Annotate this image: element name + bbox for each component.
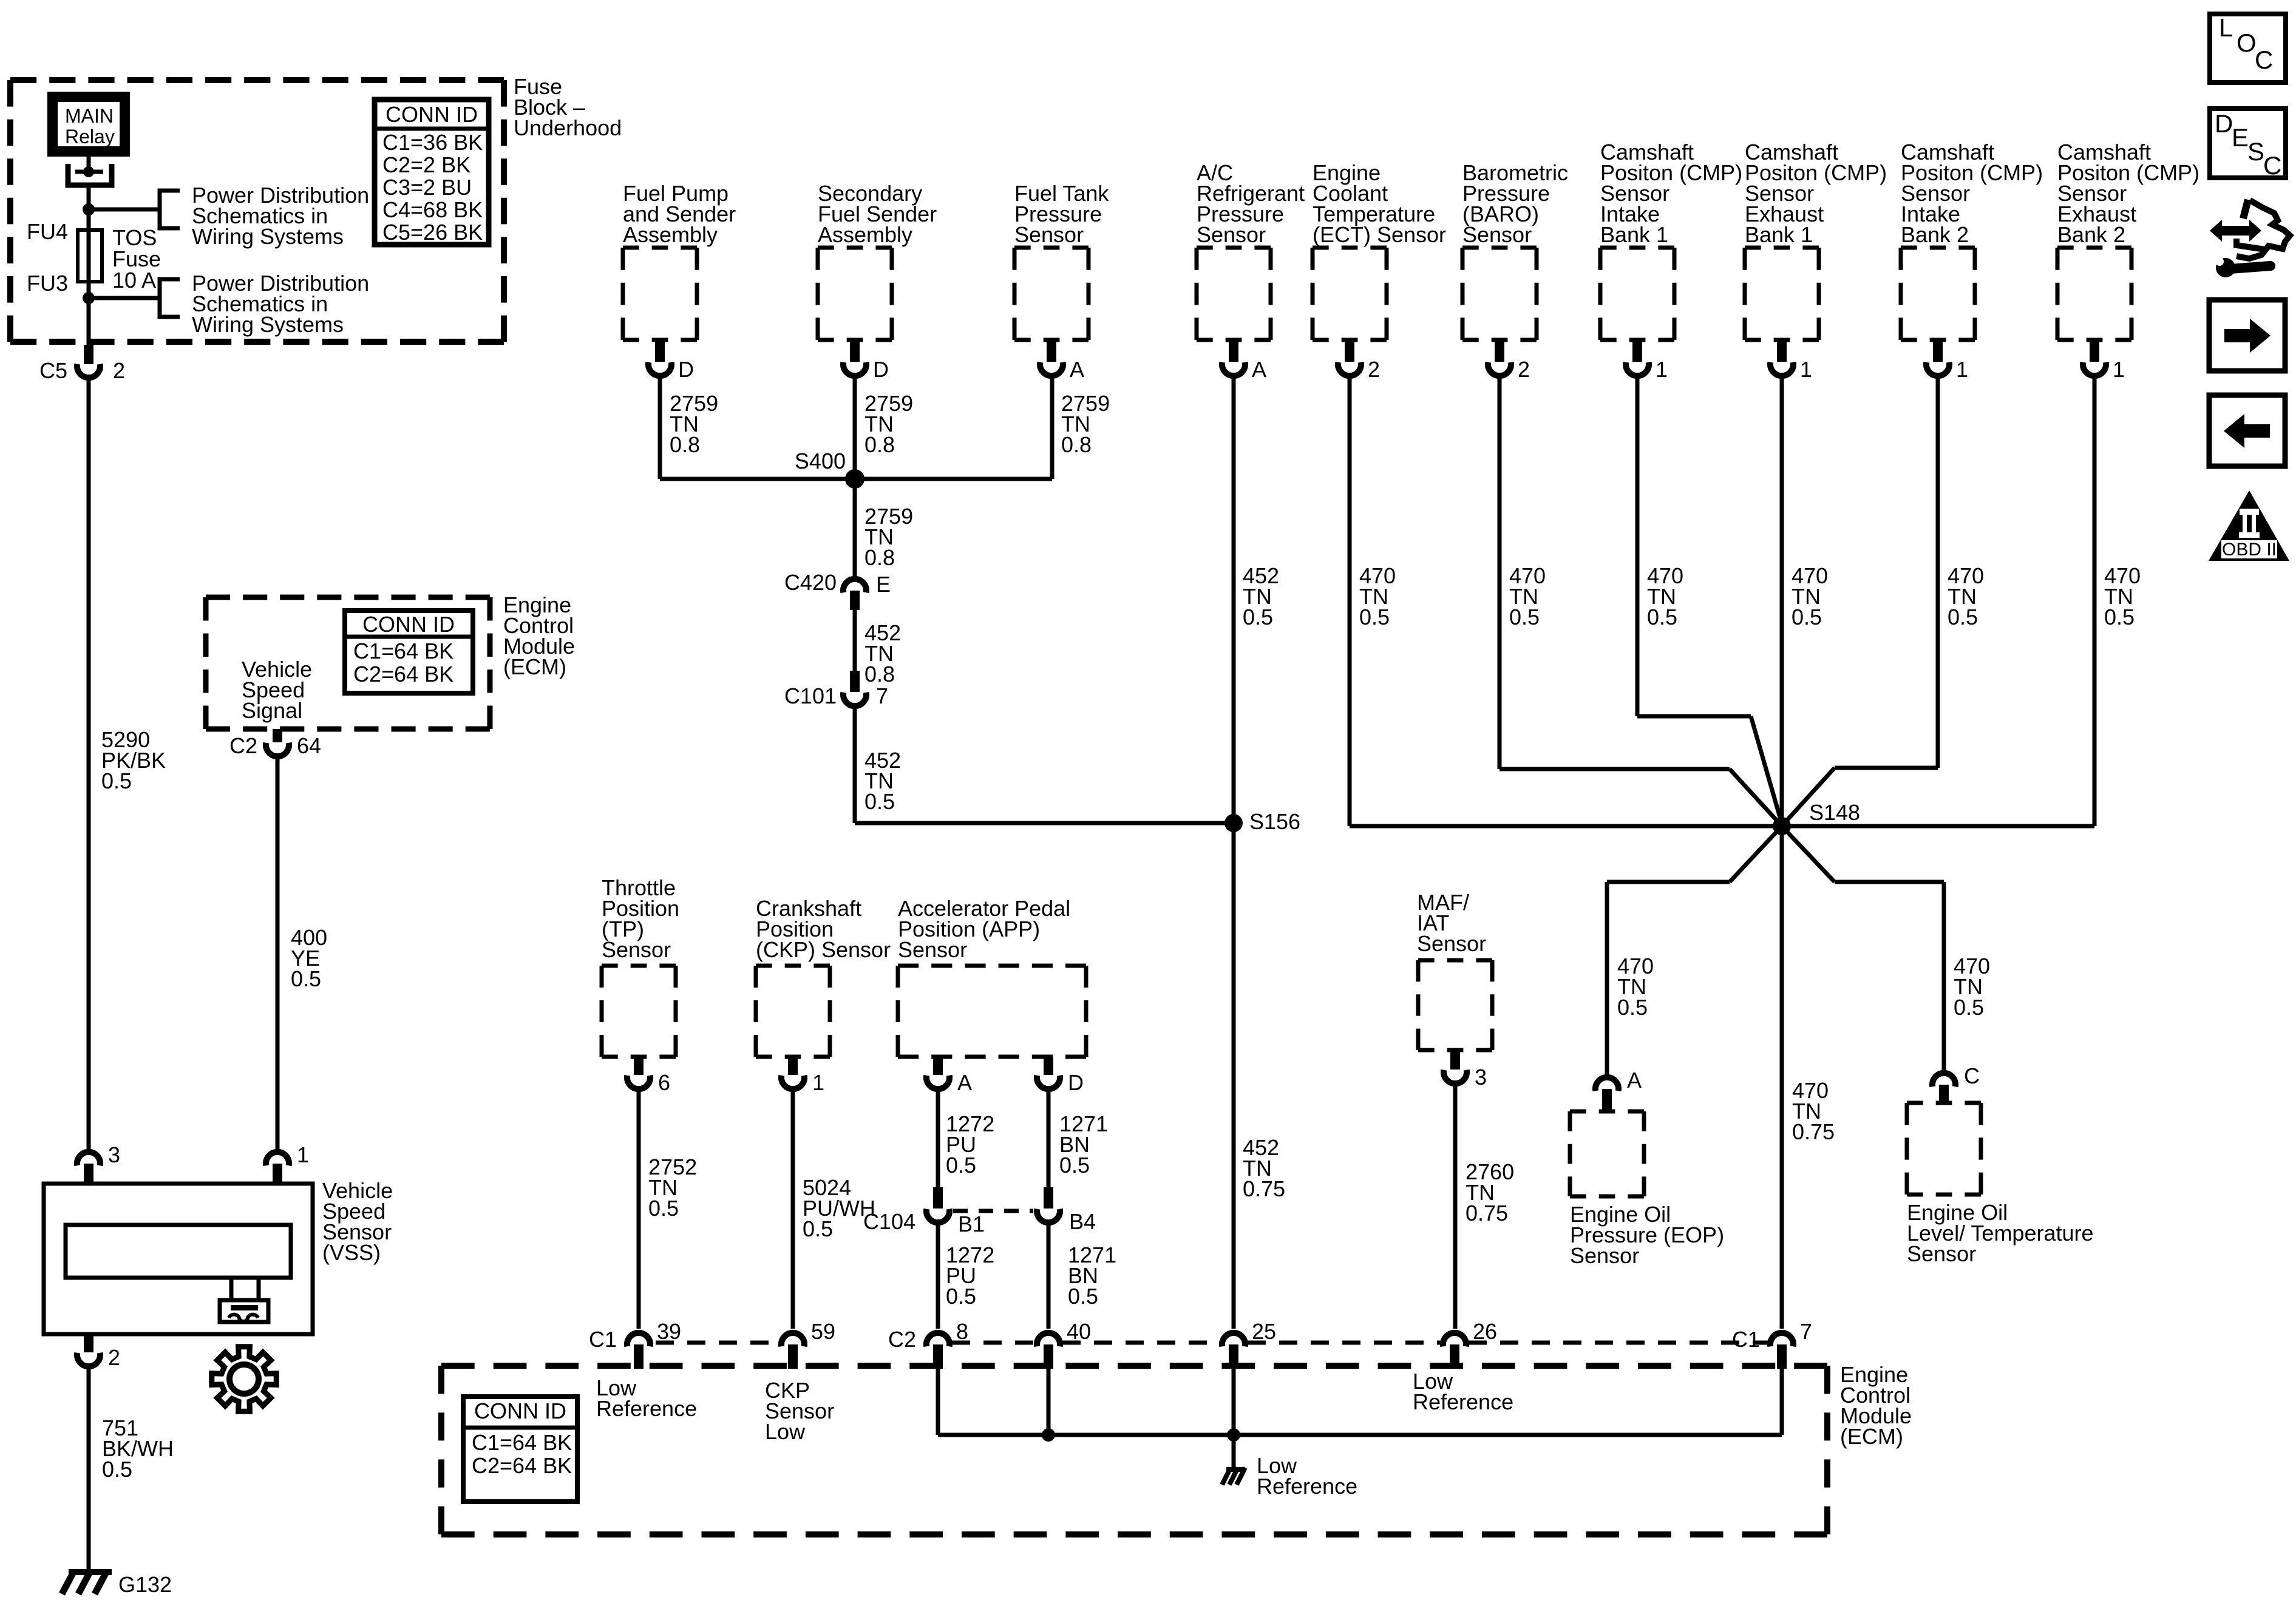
wire fuel pump D to S400 [660, 379, 855, 479]
gear icon [212, 1347, 276, 1411]
label Engine Oil Pressure (EOP) Sensor [1570, 1202, 1724, 1268]
ECM internal low reference bus [938, 1369, 1782, 1435]
svg-text:7: 7 [1800, 1319, 1812, 1344]
svg-text:Reference: Reference [1257, 1474, 1357, 1499]
svg-text:Bank 1: Bank 1 [1600, 222, 1668, 247]
sensor box A/C refrigerant pressure sensor [1197, 160, 1305, 382]
svg-text:59: 59 [811, 1319, 835, 1344]
label 470 TN 0.5 (CMP exh 2) [2104, 563, 2141, 629]
svg-text:0.5: 0.5 [1509, 605, 1540, 629]
svg-text:0.5: 0.5 [648, 1196, 679, 1221]
svg-text:S: S [2247, 137, 2264, 166]
svg-text:CONN ID: CONN ID [385, 102, 478, 127]
svg-text:8: 8 [956, 1319, 968, 1344]
label Low Reference (pin 26) [1413, 1369, 1513, 1414]
junction pin 25 bus [1227, 1428, 1240, 1442]
label CKP Sensor Low [765, 1378, 834, 1444]
svg-text:O: O [2237, 29, 2257, 57]
svg-text:(CKP) Sensor: (CKP) Sensor [756, 937, 891, 962]
internal ground (low reference) [1222, 1468, 1245, 1485]
label 452 TN 0.75 [1243, 1135, 1285, 1201]
svg-text:Sensor: Sensor [602, 937, 671, 962]
icon DESC box [2210, 109, 2286, 180]
svg-text:S148: S148 [1809, 800, 1860, 825]
svg-text:C5=26 BK: C5=26 BK [382, 220, 483, 245]
label 2759 TN 0.8 (below S400) [864, 504, 913, 570]
splice S148 [1773, 800, 1860, 835]
svg-text:64: 64 [297, 733, 321, 758]
svg-text:0.5: 0.5 [1243, 605, 1273, 629]
wire BARO pin 2 to S148 [1500, 379, 1784, 828]
wire through fuse [87, 230, 91, 282]
svg-text:MAIN: MAIN [65, 105, 114, 127]
svg-text:0.5: 0.5 [1948, 605, 1978, 629]
label 400 YE 0.5 [291, 925, 327, 991]
label 1272 PU 0.5 (upper) [946, 1111, 994, 1178]
label 452 TN 0.8 [864, 620, 901, 686]
svg-text:C: C [2263, 151, 2281, 180]
svg-text:0.5: 0.5 [101, 768, 132, 793]
node branch2 [83, 292, 95, 304]
svg-text:0.5: 0.5 [1954, 995, 1984, 1020]
label 1271 BN 0.5 (lower) [1068, 1242, 1116, 1309]
svg-text:40: 40 [1067, 1319, 1091, 1344]
label Low Reference (pin 39) [596, 1375, 697, 1421]
label 2759 TN 0.8 (fuel tank) [1061, 391, 1110, 457]
conn id table lower ECM [463, 1397, 577, 1502]
svg-text:0.5: 0.5 [946, 1284, 976, 1309]
wire S148 to oil level sensor [1780, 824, 1944, 1071]
wire pin64 to VSS pin 1 [276, 759, 280, 1149]
svg-text:1: 1 [1956, 357, 1968, 382]
svg-text:B4: B4 [1069, 1209, 1096, 1234]
relay contact bar [75, 166, 103, 177]
svg-text:CONN ID: CONN ID [474, 1398, 566, 1423]
VSS inner element [66, 1225, 291, 1278]
sensor box camshaft position sensor intake bank 2 [1901, 140, 2043, 382]
label 470 TN 0.5 (EOP) [1617, 954, 1654, 1020]
svg-text:0.75: 0.75 [1243, 1176, 1285, 1201]
svg-text:0.5: 0.5 [1647, 605, 1677, 629]
svg-text:C1=64 BK: C1=64 BK [353, 639, 453, 663]
label Vehicle Speed Signal [242, 657, 312, 723]
svg-text:Relay: Relay [65, 126, 115, 147]
ECM pin 59 [781, 1319, 835, 1369]
svg-text:C: C [2255, 46, 2273, 74]
vehicle speed sensor box [44, 1184, 313, 1334]
svg-text:3: 3 [1475, 1065, 1487, 1090]
label Power Distribution 2 [192, 271, 369, 337]
ECM pin 26 [1443, 1319, 1497, 1369]
wire fuel tank A to S400 [855, 379, 1052, 479]
sensor box fuel tank pressure sensor [1014, 181, 1109, 382]
splice S400 [795, 449, 864, 489]
svg-text:D: D [873, 357, 889, 382]
svg-text:2: 2 [108, 1345, 120, 1370]
svg-text:0.5: 0.5 [2104, 605, 2135, 629]
label 1272 PU 0.5 (lower) [946, 1242, 994, 1309]
splice S156 [1224, 809, 1300, 834]
svg-text:D: D [678, 357, 694, 382]
svg-text:C2=64 BK: C2=64 BK [353, 662, 453, 686]
svg-text:Underhood: Underhood [514, 115, 622, 140]
svg-text:Reference: Reference [596, 1396, 697, 1421]
sensor box engine coolant temperature (ECT) sensor [1313, 160, 1446, 382]
wire S148 to EOP sensor [1607, 824, 1784, 1075]
node branch1 [83, 203, 95, 215]
wire CMP exhaust bank1 through S148 to ECM pin 7 [1780, 379, 1784, 1329]
svg-text:0.8: 0.8 [670, 432, 700, 457]
wire ECT pin 2 to S148 [1350, 379, 1782, 826]
svg-text:E: E [876, 572, 891, 597]
VSS pedestal [220, 1278, 268, 1322]
svg-text:Sensor: Sensor [1570, 1243, 1639, 1268]
svg-text:1: 1 [1800, 357, 1812, 382]
label TOS Fuse 10 A [112, 225, 161, 293]
icon double-arrow hand [2210, 200, 2290, 259]
svg-text:0.8: 0.8 [864, 662, 895, 686]
svg-text:26: 26 [1473, 1319, 1497, 1344]
svg-text:Sensor: Sensor [1907, 1241, 1976, 1266]
svg-text:Sensor: Sensor [1197, 222, 1266, 247]
svg-text:S156: S156 [1249, 809, 1300, 834]
svg-text:C2=2 BK: C2=2 BK [382, 152, 470, 177]
svg-text:0.5: 0.5 [1792, 605, 1822, 629]
svg-text:2: 2 [113, 358, 125, 383]
svg-text:0.5: 0.5 [803, 1216, 833, 1241]
svg-text:C1=64 BK: C1=64 BK [472, 1430, 572, 1455]
ground G132 [62, 1572, 172, 1597]
wire TP pin 6 to ECM pin 39 [637, 1092, 641, 1329]
wire APP D to C104 B4 [1047, 1092, 1051, 1188]
ECM pin 39 [589, 1319, 681, 1369]
wire VSS to ground [87, 1369, 91, 1572]
relay K MAIN Relay box [47, 92, 130, 157]
label 470 TN 0.5 (ECT) [1359, 563, 1396, 629]
svg-text:0.75: 0.75 [1466, 1201, 1508, 1225]
svg-text:Low: Low [765, 1419, 806, 1444]
wire CMP intake bank1 to S148 [1637, 379, 1783, 828]
wire branch1 [89, 208, 160, 212]
wire bus to internal ground [1232, 1435, 1236, 1468]
svg-text:C4=68 BK: C4=68 BK [382, 197, 483, 222]
svg-text:FU3: FU3 [27, 271, 68, 296]
svg-text:Assembly: Assembly [623, 222, 718, 247]
svg-text:D: D [1068, 1070, 1084, 1095]
label Power Distribution 1 [192, 183, 369, 249]
svg-text:39: 39 [657, 1319, 681, 1344]
svg-text:1: 1 [297, 1142, 309, 1167]
sensor box accelerator pedal position (APP) [898, 896, 1086, 1095]
relay bracket [68, 164, 112, 185]
icon LOC box [2210, 13, 2286, 83]
wire CMP exhaust bank2 to S148 [1782, 379, 2094, 826]
wire CKP pin 1 to ECM pin 59 [791, 1092, 795, 1329]
ECM pin 25 [1222, 1319, 1276, 1369]
label Engine Control Module (ECM) lower [1840, 1362, 1912, 1449]
label 2759 TN 0.8 (secondary) [864, 391, 913, 457]
VSS pin 1 [266, 1142, 309, 1184]
label Low Reference (ground) [1257, 1453, 1357, 1499]
wire MAF pin 3 to ECM pin 26 [1453, 1086, 1458, 1329]
connector C104 pin B1 [863, 1187, 985, 1236]
svg-text:S400: S400 [795, 449, 846, 473]
svg-text:1: 1 [1656, 357, 1668, 382]
ECM vehicle-speed dashed box [206, 597, 490, 729]
label 2752 TN 0.5 [648, 1154, 697, 1221]
svg-text:C1=36 BK: C1=36 BK [382, 130, 483, 155]
svg-text:6: 6 [658, 1070, 670, 1095]
svg-text:Bank 2: Bank 2 [1901, 222, 1969, 247]
svg-text:C1: C1 [1732, 1327, 1760, 1352]
conn id table fuse block [375, 100, 489, 245]
sensor box engine oil level/temperature [1907, 1103, 1981, 1195]
ECM pin 40 [1037, 1319, 1091, 1369]
svg-text:C2: C2 [229, 733, 257, 758]
sensor box camshaft position sensor intake bank 1 [1600, 140, 1742, 382]
svg-text:C2=64 BK: C2=64 BK [472, 1453, 572, 1478]
svg-text:G132: G132 [118, 1572, 172, 1597]
fuse FU4/FU3 TOS 10A [78, 230, 102, 282]
label Vehicle Speed Sensor (VSS) [322, 1178, 393, 1265]
ECM connector row dashes [656, 1341, 1768, 1345]
label FU4 [27, 219, 68, 244]
svg-text:Reference: Reference [1413, 1389, 1513, 1414]
wire CMP intake bank2 to S148 [1780, 379, 1938, 828]
svg-text:2: 2 [1518, 357, 1530, 382]
ECM pin 7 [1732, 1319, 1812, 1369]
svg-text:C: C [1964, 1063, 1980, 1088]
sensor box crankshaft position (CKP) [756, 896, 891, 1095]
wire secondary fuel sender D to S400 [853, 379, 857, 479]
label FU3 [27, 271, 68, 296]
C104 dashed line [953, 1209, 1033, 1213]
sensor box secondary fuel sender assembly [818, 181, 937, 382]
svg-text:A: A [1627, 1068, 1642, 1093]
label 470 TN 0.5 (CMP int 2) [1948, 563, 1984, 629]
svg-text:(ECM): (ECM) [503, 654, 566, 679]
label 751 BK/WH 0.5 [102, 1415, 174, 1482]
label 452 TN 0.5 (below C101) [864, 748, 901, 814]
svg-text:Wiring Systems: Wiring Systems [192, 312, 344, 337]
wire C104 B4 to ECM pin 40 [1047, 1225, 1051, 1329]
label Engine Control Module (ECM) upper [503, 592, 575, 679]
label 470 TN 0.5 (oil level) [1954, 954, 1990, 1020]
svg-text:10 A: 10 A [112, 268, 156, 293]
callout bracket2 [160, 279, 180, 317]
svg-text:C1: C1 [589, 1327, 617, 1352]
connector C420 pin E [784, 570, 891, 610]
svg-text:0.8: 0.8 [1061, 432, 1092, 457]
sensor box barometric pressure (BARO) sensor [1462, 160, 1568, 382]
sensor box MAF/IAT [1417, 890, 1492, 1090]
callout bracket1 [160, 191, 180, 228]
junction pin 40 bus [1042, 1428, 1055, 1442]
svg-text:(ECT) Sensor: (ECT) Sensor [1313, 222, 1446, 247]
connector C104 pin B4 [1037, 1187, 1096, 1234]
label 470 TN 0.5 (BARO) [1509, 563, 1546, 629]
svg-text:25: 25 [1252, 1319, 1276, 1344]
label 1271 BN 0.5 (upper) [1059, 1111, 1108, 1178]
wire C104 B1 to ECM pin 8 [936, 1225, 940, 1329]
svg-text:Wiring Systems: Wiring Systems [192, 224, 344, 249]
wire APP A to C104 B1 [936, 1092, 940, 1188]
svg-text:A: A [957, 1070, 972, 1095]
wire A/C pin A down to ECM pin 25 [1232, 379, 1236, 1329]
connector C5 pin 2 [39, 345, 125, 383]
svg-text:D: D [2215, 109, 2233, 138]
VSS pin 2 [77, 1334, 120, 1370]
svg-text:Sensor: Sensor [1417, 931, 1486, 956]
sensor box camshaft position sensor exhaust bank 1 [1745, 140, 1887, 382]
sensor box engine oil pressure (EOP) [1570, 1111, 1644, 1196]
label 5290 PK/BK 0.5 [101, 727, 166, 793]
label 470 TN 0.5 (CMP int 1) [1647, 563, 1683, 629]
svg-text:L: L [2219, 13, 2233, 42]
wire relay to fuse [87, 185, 91, 230]
fuse block - underhood dashed box [10, 80, 504, 342]
svg-text:Assembly: Assembly [818, 222, 912, 247]
svg-text:0.8: 0.8 [864, 545, 895, 570]
label 470 TN 0.5 (CMP exh 1) [1792, 563, 1828, 629]
icon arrow right box [2209, 300, 2285, 371]
svg-text:Bank 1: Bank 1 [1745, 222, 1813, 247]
svg-text:0.75: 0.75 [1792, 1119, 1835, 1144]
ECM pin 8 [888, 1319, 968, 1369]
svg-text:A: A [1070, 357, 1084, 382]
svg-text:CONN ID: CONN ID [362, 612, 455, 637]
svg-text:C104: C104 [863, 1209, 915, 1234]
svg-text:Bank 2: Bank 2 [2057, 222, 2125, 247]
connector C2 pin 64 [229, 729, 321, 758]
svg-text:0.5: 0.5 [864, 789, 895, 814]
svg-text:0.5: 0.5 [291, 966, 321, 991]
label 2760 TN 0.75 [1466, 1159, 1514, 1225]
svg-text:(VSS): (VSS) [322, 1240, 381, 1265]
wire fuse to branch2 [87, 282, 91, 345]
wire S400 to C420 [853, 479, 857, 576]
label Fuse Block - Underhood [514, 74, 622, 140]
svg-text:E: E [2232, 123, 2249, 152]
svg-text:C3=2 BU: C3=2 BU [382, 175, 472, 200]
label Engine Oil Level/Temperature Sensor [1907, 1200, 2094, 1266]
label 470 TN 0.75 (S148 to ECM) [1792, 1078, 1835, 1144]
svg-text:2: 2 [1368, 357, 1380, 382]
svg-text:0.5: 0.5 [1068, 1284, 1098, 1309]
svg-text:Sensor: Sensor [898, 937, 967, 962]
svg-text:7: 7 [876, 683, 888, 708]
svg-text:0.5: 0.5 [102, 1457, 132, 1482]
svg-text:0.8: 0.8 [864, 432, 895, 457]
sensor box camshaft position sensor exhaust bank 2 [2057, 140, 2199, 382]
icon OBD II triangle [2209, 490, 2289, 561]
svg-text:OBD II: OBD II [2222, 540, 2277, 560]
svg-text:FU4: FU4 [27, 219, 68, 244]
svg-text:C420: C420 [784, 570, 837, 595]
svg-text:Sensor: Sensor [1014, 222, 1084, 247]
svg-text:3: 3 [108, 1142, 120, 1167]
ECM dashed box [441, 1366, 1827, 1534]
svg-text:0.5: 0.5 [1359, 605, 1390, 629]
sensor box throttle position (TP) [602, 875, 679, 1095]
svg-text:1: 1 [2113, 357, 2125, 382]
svg-text:A: A [1252, 357, 1266, 382]
connector EOP pin A [1595, 1068, 1642, 1111]
connector oil level pin C [1932, 1063, 1980, 1103]
sensor box fuel pump and sender assembly [623, 181, 736, 382]
VSS pin 3 [77, 1142, 120, 1184]
svg-text:0.5: 0.5 [946, 1153, 976, 1178]
wire C101 to S156 [855, 709, 1234, 823]
wire C420 to C101 [853, 610, 857, 671]
svg-text:1: 1 [812, 1070, 824, 1095]
svg-text:C101: C101 [784, 683, 837, 708]
svg-text:B1: B1 [958, 1212, 985, 1236]
wire relay output [87, 157, 91, 172]
svg-text:(ECM): (ECM) [1840, 1424, 1903, 1449]
wire branch2 [89, 296, 160, 300]
connector C101 pin 7 [784, 671, 888, 708]
svg-text:Signal: Signal [242, 698, 302, 723]
svg-text:0.5: 0.5 [1617, 995, 1648, 1020]
label 2759 TN 0.8 (fuel pump) [670, 391, 718, 457]
label 5024 PU/WH 0.5 [803, 1175, 875, 1241]
svg-text:C5: C5 [39, 358, 67, 383]
svg-text:Sensor: Sensor [1462, 222, 1532, 247]
wire C5 to VSS pin 3 [87, 381, 91, 1149]
svg-text:C2: C2 [888, 1327, 916, 1352]
conn id table upper ECM [345, 611, 473, 693]
icon wrench [2215, 257, 2271, 277]
icon arrow left box [2209, 395, 2285, 466]
label 452 TN 0.5 (A/C) [1243, 563, 1279, 629]
svg-text:0.5: 0.5 [1059, 1153, 1090, 1178]
